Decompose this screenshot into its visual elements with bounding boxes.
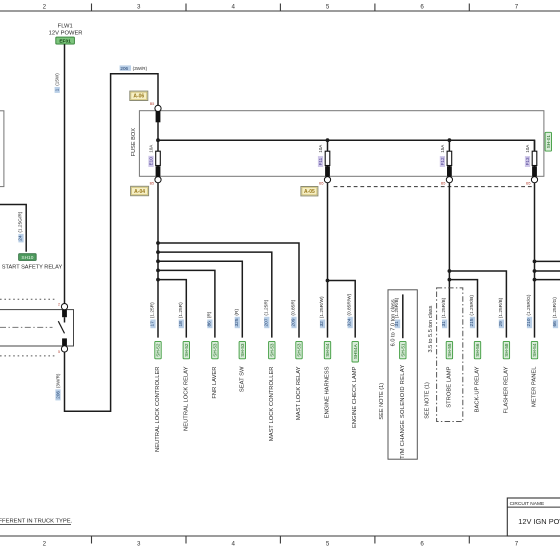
- junction on trunk y=279.6: [156, 278, 160, 282]
- wire F13 fuse to pin: [534, 165, 536, 167]
- svg-text:CIRCUIT NAME: CIRCUIT NAME: [510, 501, 545, 507]
- svg-text:6: 6: [420, 4, 424, 11]
- wire branch to engine check lamp: [328, 281, 356, 338]
- power source FLW1 12V POWER: [49, 23, 83, 36]
- wire label 210 (1.25R/G): [527, 317, 532, 328]
- svg-text:18: 18: [178, 321, 184, 327]
- svg-text:SH-01: SH-01: [546, 135, 551, 149]
- svg-text:10A: 10A: [149, 144, 154, 153]
- sheet tag SH-54 for engine harness: [324, 341, 330, 358]
- wire label 29 (1.25R/B): [499, 319, 504, 328]
- svg-text:2: 2: [58, 303, 60, 307]
- relay pin 5 terminal: [62, 338, 67, 345]
- svg-text:ENGINE CHECK LAMP: ENGINE CHECK LAMP: [352, 366, 358, 428]
- svg-text:(1.25R): (1.25R): [263, 299, 269, 315]
- fuse F13 output terminal pin: [532, 166, 537, 176]
- sheet tag SH-54 for meter panel: [531, 341, 537, 358]
- junction on trunk y=270.4: [156, 269, 160, 273]
- sheet tag SH-53 for FNR LAVER: [212, 341, 218, 358]
- svg-text:7: 7: [515, 541, 519, 548]
- svg-text:(1.25R/W): (1.25R/W): [319, 296, 325, 318]
- svg-text:SH-52: SH-52: [184, 343, 189, 357]
- fuse box outline: [139, 111, 544, 177]
- wire F12 bus to fuse: [448, 140, 450, 151]
- svg-text:15A: 15A: [440, 144, 445, 153]
- svg-text:12V IGN POWER: 12V IGN POWER: [518, 517, 560, 526]
- svg-text:5: 5: [58, 350, 60, 354]
- wire E10 input to fuse: [157, 122, 159, 151]
- svg-text:(0.85R/W): (0.85R/W): [347, 293, 353, 315]
- junction F12 bus: [448, 138, 452, 142]
- svg-text:NEUTRAL LOCK CONTROLLER: NEUTRAL LOCK CONTROLLER: [155, 367, 161, 452]
- wire label 17 (1.25R): [150, 319, 155, 328]
- wire label 18 (1.25R): [179, 319, 184, 328]
- wire label 1 (15W): [55, 87, 60, 93]
- svg-text:(0.85R): (0.85R): [291, 299, 297, 315]
- junction off-page branch 1: [533, 260, 537, 264]
- connector A-04 tag: [131, 186, 149, 195]
- wire label 209 (0.85R): [291, 317, 296, 328]
- sheet tag SH-52 for NEUTRAL LOCK CONTROLLER: [155, 341, 161, 358]
- wire off-page branch 3: [535, 279, 560, 281]
- start safety relay enclosure dotted boundary upper: [0, 298, 56, 300]
- svg-text:SH-53: SH-53: [297, 343, 302, 357]
- svg-text:10A: 10A: [318, 144, 323, 153]
- svg-text:5: 5: [326, 4, 330, 11]
- junction flasher relay branch: [448, 269, 452, 273]
- svg-text:31: 31: [394, 321, 400, 327]
- relay pin 5 connector circle: [61, 346, 67, 352]
- dashed option line below fuse box: [334, 186, 534, 188]
- svg-text:SH54A: SH54A: [353, 343, 358, 359]
- connector A-05 tag: [301, 187, 318, 196]
- relay pin 2 terminal: [62, 310, 67, 317]
- start safety relay centerline dash-dot: [0, 326, 53, 328]
- svg-text:(1.25R): (1.25R): [150, 302, 156, 318]
- svg-text:7: 7: [515, 4, 519, 11]
- wire label 207 (1.25R): [264, 317, 269, 328]
- relay switch blade: [58, 321, 64, 333]
- wire trunk from E10 to neutral lock controller: [157, 183, 159, 338]
- svg-text:(3W/R): (3W/R): [133, 66, 148, 71]
- top ruler zone numbers: [43, 4, 519, 11]
- svg-text:(R): (R): [234, 309, 240, 316]
- page frame top ruler line: [0, 4, 560, 12]
- svg-text:T/M CHANGE SOLENOID RELAY: T/M CHANGE SOLENOID RELAY: [400, 365, 406, 459]
- fuse F11 label: [318, 156, 323, 167]
- svg-text:SH-54: SH-54: [532, 343, 537, 357]
- wire label 32 (1.25R/W): [320, 319, 325, 328]
- fuse F11 output connector circle: [324, 177, 330, 183]
- fuse box internal bus: [158, 140, 535, 151]
- svg-text:F12: F12: [440, 157, 445, 165]
- svg-text:METER PANEL: METER PANEL: [532, 366, 538, 407]
- fuse F11 output terminal pin: [325, 166, 330, 176]
- sheet tag SH10 start safety relay: [19, 254, 37, 261]
- wire stub t/m change solenoid relay: [402, 294, 404, 338]
- junction on trunk y=252.1: [156, 250, 160, 254]
- sheet tag SH-53 for SEAT SW: [239, 341, 245, 358]
- wire branch to mast lock relay: [158, 243, 299, 338]
- svg-text:29: 29: [498, 321, 504, 327]
- source tag EF01: [56, 37, 75, 44]
- svg-text:207: 207: [263, 318, 269, 326]
- wire trunk from F11 to engine harness: [327, 183, 329, 338]
- junction off-page branch 2: [533, 269, 537, 273]
- sheet tag at fuse box right edge: [545, 132, 551, 151]
- svg-text:SEE NOTE (1): SEE NOTE (1): [425, 382, 431, 419]
- svg-text:4: 4: [231, 541, 235, 548]
- svg-text:206: 206: [56, 391, 61, 399]
- svg-text:SH-56: SH-56: [475, 343, 480, 357]
- svg-text:215: 215: [469, 318, 475, 326]
- svg-text:STROBE LAMP: STROBE LAMP: [446, 366, 452, 407]
- junction E10 bus: [156, 138, 160, 142]
- svg-text:B5: B5: [150, 182, 154, 186]
- svg-text:BACK-UP RELAY: BACK-UP RELAY: [475, 366, 481, 412]
- ignition switch box (cut at left edge): [0, 111, 4, 187]
- junction off-page branch 3: [533, 278, 537, 282]
- svg-text:206: 206: [120, 66, 128, 71]
- svg-text:1: 1: [55, 88, 60, 91]
- wire F13 bus to fuse: [534, 140, 536, 151]
- option chain box strobe lamp: [437, 288, 463, 422]
- svg-text:(1.25R): (1.25R): [178, 302, 184, 318]
- sheet tag SH-56 for back-up relay: [474, 341, 480, 358]
- svg-text:FLASHER RELAY: FLASHER RELAY: [503, 366, 509, 413]
- sheet tag SH54A for engine check lamp: [352, 341, 358, 362]
- svg-text:FFERENT IN TRUCK TYPE.: FFERENT IN TRUCK TYPE.: [0, 519, 73, 525]
- wire label 206 (3W/R) vertical: [55, 389, 60, 400]
- note text DIFFERENT IN TRUCK TYPE: [0, 519, 73, 525]
- wire branch to fnr laver: [158, 270, 215, 337]
- svg-text:F13: F13: [525, 157, 530, 165]
- start safety relay enclosure dotted boundary lower: [0, 355, 56, 357]
- fuse E10 output connector circle: [155, 177, 161, 183]
- svg-text:SEAT SW: SEAT SW: [239, 366, 245, 392]
- fuse F13 label: [525, 156, 530, 167]
- svg-text:(1.25G/R): (1.25G/R): [18, 211, 24, 232]
- svg-text:3: 3: [137, 4, 141, 11]
- fuse F12 output terminal pin: [447, 166, 452, 176]
- svg-text:SH-53: SH-53: [213, 343, 218, 357]
- svg-text:FNR LAVER: FNR LAVER: [212, 367, 218, 399]
- svg-text:10A: 10A: [525, 144, 530, 153]
- junction on trunk y=261.3: [156, 259, 160, 263]
- option box t/m change solenoid relay: [388, 290, 417, 459]
- svg-text:6: 6: [420, 541, 424, 548]
- wire branch to seat sw: [158, 261, 242, 337]
- wire 206 from relay to fuse box: [65, 74, 159, 412]
- wire F12 fuse to pin: [448, 165, 450, 167]
- wire off-page branch 2: [535, 270, 560, 272]
- svg-text:209: 209: [291, 318, 297, 326]
- relay pin 2 connector circle: [61, 304, 67, 310]
- svg-text:SH-53: SH-53: [240, 343, 245, 357]
- svg-text:F11: F11: [318, 157, 323, 165]
- wire 24 to start safety relay coil: [0, 205, 26, 252]
- wire label 24 (1.25G/R): [18, 234, 23, 243]
- fuse F11 body: [325, 151, 330, 165]
- wire label 31 (1.25R/B) strobe lamp: [442, 319, 447, 328]
- junction back-up relay branch: [448, 278, 452, 282]
- svg-text:SH-58: SH-58: [504, 343, 509, 357]
- svg-text:B5: B5: [441, 182, 445, 186]
- svg-text:NEUTRAL LOCK RELAY: NEUTRAL LOCK RELAY: [183, 366, 189, 431]
- wire label 86 (R): [207, 319, 212, 328]
- wire off-page branch 1: [535, 260, 560, 262]
- svg-text:A-05: A-05: [304, 189, 315, 195]
- svg-text:24: 24: [18, 235, 24, 241]
- bottom ruler line: [0, 536, 560, 544]
- svg-text:B5: B5: [319, 182, 323, 186]
- svg-text:EF01: EF01: [59, 39, 71, 45]
- connector A-06 tag: [130, 91, 148, 100]
- svg-text:2: 2: [43, 4, 47, 11]
- svg-text:3.5 to 5.5 ton class: 3.5 to 5.5 ton class: [428, 305, 434, 352]
- wire E10 fuse to output pin: [157, 165, 159, 167]
- fuse F13 output connector circle: [531, 177, 537, 183]
- svg-text:SH-55: SH-55: [447, 343, 452, 357]
- svg-text:E10: E10: [149, 157, 154, 166]
- wire branch to flasher relay: [449, 271, 506, 338]
- svg-text:(1.25R/B): (1.25R/B): [441, 297, 447, 318]
- svg-text:17: 17: [150, 321, 156, 327]
- fuse F12 label: [440, 156, 445, 167]
- wire label 31 (1.25R/B) in option box: [395, 319, 400, 328]
- svg-text:A-04: A-04: [134, 189, 145, 195]
- svg-text:(1.25R/G): (1.25R/G): [552, 297, 558, 318]
- svg-text:2: 2: [43, 541, 47, 548]
- wire label 215 (1.25R/B): [470, 317, 475, 328]
- svg-text:SH-52: SH-52: [156, 343, 161, 357]
- wire label 324 (0.85R/W): [348, 317, 353, 328]
- svg-text:START SAFETY RELAY: START SAFETY RELAY: [2, 264, 63, 270]
- junction engine check lamp branch: [326, 279, 330, 283]
- svg-text:FUSE BOX: FUSE BOX: [131, 128, 137, 157]
- wire F11 fuse to pin: [327, 165, 329, 167]
- svg-text:SH-53: SH-53: [269, 343, 274, 357]
- svg-text:B5: B5: [150, 102, 154, 106]
- wire F11 bus to fuse: [327, 140, 329, 151]
- wire 1 from FLW1 to relay contact: [64, 44, 66, 303]
- svg-text:SH10: SH10: [21, 255, 33, 261]
- svg-text:5: 5: [326, 541, 330, 548]
- svg-text:4: 4: [231, 4, 235, 11]
- fuse F13 body: [532, 151, 537, 165]
- sheet tag SH-55 for strobe lamp: [446, 341, 452, 358]
- junction on trunk y=243.0: [156, 241, 160, 245]
- svg-text:12V POWER: 12V POWER: [49, 30, 83, 36]
- sheet tag SH-52 for NEUTRAL LOCK RELAY: [183, 341, 189, 358]
- svg-text:324: 324: [347, 318, 353, 326]
- svg-text:(1.25R/B): (1.25R/B): [498, 297, 504, 318]
- svg-text:SH-51: SH-51: [400, 343, 405, 357]
- sheet tag SH-51 for t/m change solenoid relay: [400, 341, 406, 358]
- sheet tag SH-53 for MAST LOCK CONTROLLER: [269, 341, 275, 358]
- fuse E10 input terminal pin: [156, 111, 161, 122]
- wire trunk from F13 to meter panel: [534, 183, 536, 338]
- svg-text:SEE NOTE (1): SEE NOTE (1): [379, 383, 385, 420]
- wire label 66 (1.25R/G) at page edge: [553, 319, 558, 328]
- svg-text:66: 66: [552, 321, 558, 327]
- sheet tag SH-58 for flasher relay: [503, 341, 509, 358]
- sheet tag SH-53 for MAST LOCK RELAY: [296, 341, 302, 358]
- wire label 325 (R): [235, 317, 240, 328]
- svg-text:ENGINE HARNESS: ENGINE HARNESS: [325, 366, 331, 418]
- fuse F12 output connector circle: [446, 177, 452, 183]
- fuse E10 input connector circle: [155, 105, 161, 111]
- svg-text:86: 86: [206, 321, 212, 327]
- title block CIRCUIT NAME: [507, 498, 560, 536]
- svg-text:(3W/R): (3W/R): [56, 373, 61, 388]
- svg-text:(1.25R/B): (1.25R/B): [469, 295, 475, 316]
- svg-text:SH-54: SH-54: [325, 343, 330, 357]
- relay fixed contact stub: [64, 317, 66, 322]
- junction F11 bus: [326, 138, 330, 142]
- svg-text:31: 31: [441, 321, 447, 327]
- svg-text:FLW1: FLW1: [58, 23, 73, 29]
- svg-text:210: 210: [526, 318, 532, 326]
- fuse E10 label: [148, 156, 153, 167]
- svg-text:3: 3: [137, 541, 141, 548]
- fuse F12 body: [447, 151, 452, 165]
- fuse E10 output terminal pin: [156, 166, 161, 176]
- fuse E10 body: [156, 151, 161, 165]
- wire branch to back-up relay: [449, 280, 477, 338]
- svg-text:MAST LOCK RELAY: MAST LOCK RELAY: [296, 366, 302, 420]
- wire branch to mast lock controller: [158, 252, 272, 338]
- wire trunk from F12 to strobe lamp: [448, 183, 450, 338]
- svg-text:MAST LOCK CONTROLLER: MAST LOCK CONTROLLER: [269, 367, 275, 442]
- start safety relay contact box: [0, 310, 74, 346]
- svg-text:(1.25R/B): (1.25R/B): [394, 297, 400, 318]
- svg-text:A-06: A-06: [133, 94, 144, 100]
- svg-text:B5: B5: [526, 182, 530, 186]
- svg-text:325: 325: [234, 318, 240, 326]
- svg-text:32: 32: [319, 321, 325, 327]
- bottom ruler zone numbers: [43, 541, 519, 548]
- wire label 206 (3W/R) horizontal at fuse box feed: [120, 65, 148, 71]
- svg-text:(1.25R/G): (1.25R/G): [526, 294, 532, 315]
- svg-text:(15W): (15W): [55, 73, 60, 86]
- svg-text:(R): (R): [206, 311, 212, 318]
- wire branch to neutral lock relay: [158, 280, 186, 338]
